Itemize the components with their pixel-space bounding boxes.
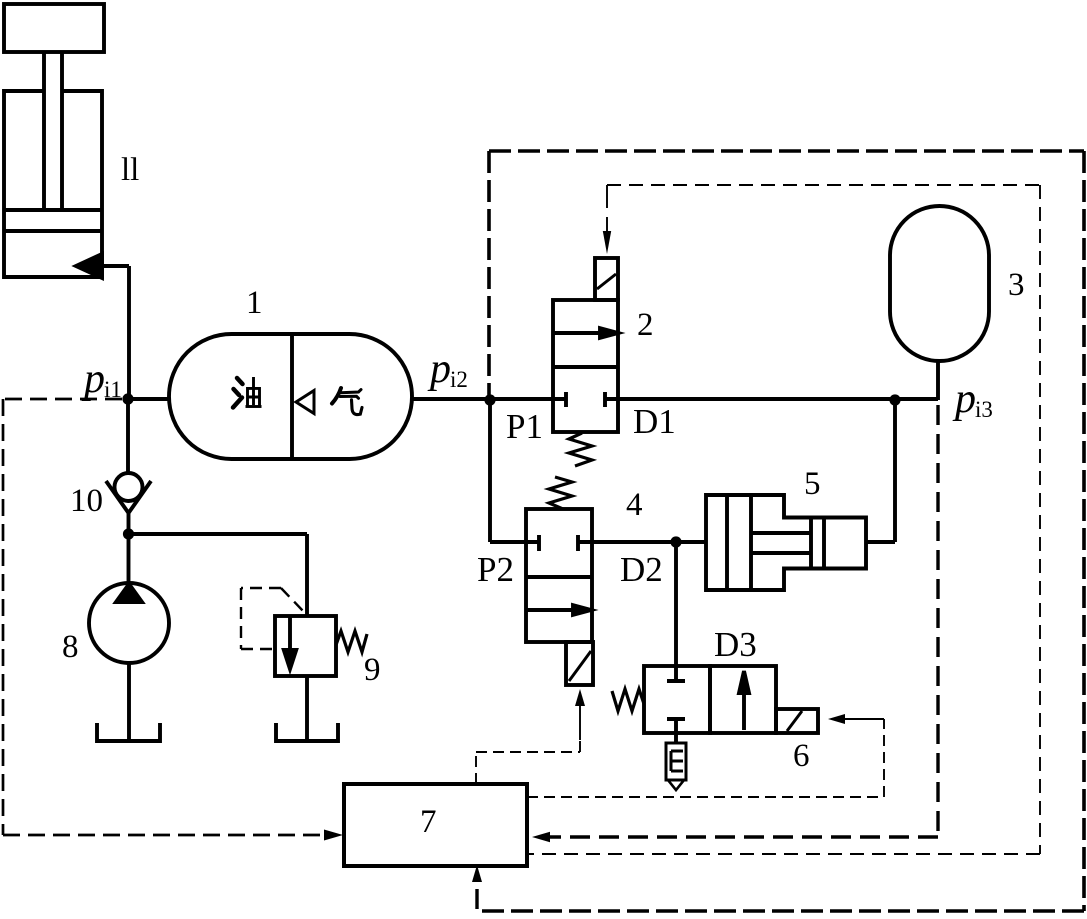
valve 4 pilot control line bbox=[476, 740, 580, 784]
piston rod of cylinder 11 bbox=[44, 52, 62, 210]
relief valve 9 internal arrow bbox=[288, 617, 292, 652]
check valve 10 bbox=[115, 473, 143, 501]
wire valve 5 to node pi3 bbox=[866, 400, 895, 542]
svg-text:9: 9 bbox=[364, 652, 381, 688]
valve 6 bottom blocked port bbox=[667, 719, 685, 743]
svg-text:2: 2 bbox=[637, 307, 654, 343]
piston of cylinder 11 bbox=[4, 210, 102, 231]
wire valve 4 D2 to valve 5 bbox=[578, 540, 706, 544]
svg-text:i2: i2 bbox=[450, 367, 468, 392]
svg-text:8: 8 bbox=[62, 629, 79, 665]
svg-text:1: 1 bbox=[246, 285, 263, 321]
node pi2 bbox=[484, 394, 495, 405]
drain triangle bbox=[668, 780, 684, 790]
valve 4 blocked ports bbox=[539, 535, 578, 551]
valve 2 solenoid box bbox=[595, 258, 618, 300]
pi1 arrow into box 7 bbox=[324, 830, 343, 841]
svg-text:p: p bbox=[81, 356, 105, 402]
wire node D2 down to valve 6 bbox=[674, 542, 678, 666]
valve 6 top blocked port bbox=[667, 666, 685, 681]
valve 4 spring bbox=[549, 477, 572, 509]
junction dots bbox=[122, 393, 900, 547]
label gas (hand drawn) bbox=[332, 388, 362, 415]
valve 6 right box bbox=[710, 666, 776, 733]
svg-text:6: 6 bbox=[793, 738, 810, 774]
svg-text:D1: D1 bbox=[633, 402, 676, 441]
relief valve 9 drain to tank bbox=[305, 676, 309, 740]
valve 2 body bbox=[553, 300, 618, 432]
accumulator 3 body bbox=[890, 206, 989, 361]
node pi3 branch bbox=[889, 394, 900, 405]
valve 4 pilot arrow bbox=[579, 705, 581, 740]
wire pi1 down to check valve 10 bbox=[126, 399, 130, 473]
svg-text:P2: P2 bbox=[477, 550, 514, 589]
valve 6 pilot control line bbox=[527, 719, 884, 797]
valve 5 internal lines bbox=[727, 495, 824, 590]
label oil (hand drawn) bbox=[233, 377, 262, 408]
box 7 bottom arrow bbox=[475, 874, 478, 878]
svg-text:5: 5 bbox=[804, 466, 821, 502]
valve 4 body bbox=[526, 509, 592, 642]
valve 6 pilot arrow bbox=[844, 718, 884, 720]
valve 4 flow arrow bbox=[527, 608, 575, 612]
valve 4 solenoid box bbox=[566, 642, 593, 685]
pi1 sensing line bbox=[3, 399, 328, 835]
drain filter under valve 6 bbox=[666, 743, 686, 780]
valve 6 spring bbox=[612, 689, 644, 711]
valve 5 body bbox=[706, 495, 866, 590]
wire pump 8 to tank bbox=[127, 663, 131, 740]
svg-text:10: 10 bbox=[70, 483, 103, 519]
outer box right edge bbox=[1082, 151, 1086, 911]
valve 2 pilot control line bbox=[527, 185, 1040, 854]
wire pi1 to accumulator 1 bbox=[128, 397, 170, 401]
port arrow into cylinder 11 bbox=[76, 254, 102, 278]
accumulator 3 stem bbox=[936, 361, 940, 400]
controller box 7 bbox=[344, 784, 527, 866]
relief valve 9 body bbox=[275, 616, 336, 676]
valve 2 flow arrow bbox=[553, 331, 602, 335]
svg-text:i3: i3 bbox=[975, 397, 993, 422]
outer box bottom edge bbox=[477, 909, 1084, 913]
pump 8 bbox=[89, 583, 169, 663]
box 7 bottom stub bbox=[475, 878, 478, 909]
svg-text:D2: D2 bbox=[620, 550, 663, 589]
svg-text:P1: P1 bbox=[506, 407, 543, 446]
svg-text:4: 4 bbox=[626, 487, 643, 523]
node below check valve 10 bbox=[123, 528, 134, 539]
relief valve 9 pilot line bbox=[241, 588, 304, 649]
accumulator 1 body bbox=[169, 334, 412, 459]
svg-text:ll: ll bbox=[121, 152, 139, 188]
svg-text:D3: D3 bbox=[714, 625, 757, 664]
node D2 bbox=[670, 536, 681, 547]
valve 2 pilot arrow bbox=[606, 185, 608, 233]
svg-text:3: 3 bbox=[1008, 267, 1025, 303]
main line valve 2 D1 port to accumulator 3 bbox=[605, 397, 938, 401]
valve 6 flow arrow bbox=[742, 691, 746, 730]
valve 4 position divider bbox=[526, 575, 592, 579]
valve 6 solenoid box bbox=[776, 709, 818, 733]
svg-text:7: 7 bbox=[420, 804, 437, 840]
accumulator 1 divider bbox=[290, 335, 294, 458]
valve 2 position divider bbox=[553, 365, 618, 369]
svg-text:p: p bbox=[427, 346, 451, 392]
tank under relief valve 9 bbox=[276, 723, 338, 741]
dash-dot outer boundary box bbox=[477, 151, 1084, 911]
load mass rectangle on cylinder 11 bbox=[4, 4, 104, 52]
node pi1 bbox=[122, 393, 133, 404]
valve 2 spring bbox=[569, 433, 592, 466]
relief valve 9 spring bbox=[336, 631, 367, 652]
accumulator 1 gas triangle bbox=[296, 391, 314, 414]
main line accumulator 1 to valve 2 P1 port bbox=[412, 397, 566, 401]
valve 5 rod lines bbox=[751, 533, 811, 553]
wire pi2 down to valve 4 P2 bbox=[490, 400, 539, 542]
svg-text:i1: i1 bbox=[104, 377, 122, 402]
cylinder 11 body bbox=[4, 91, 102, 277]
svg-text:p: p bbox=[952, 376, 976, 422]
valve 6 left box bbox=[644, 666, 710, 733]
outer box top edge bbox=[489, 149, 1084, 153]
pi3 sensing line bbox=[477, 405, 938, 909]
valve 2 blocked ports bbox=[566, 392, 605, 407]
wire branch to relief valve 9 bbox=[129, 534, 308, 616]
wire check valve 10 to pump 8 bbox=[127, 513, 131, 583]
outer box left edge bbox=[487, 151, 491, 397]
pi3 arrow into box 7 bbox=[532, 832, 550, 842]
tank under pump 8 bbox=[97, 723, 160, 741]
wire cylinder to node pi1 bbox=[102, 266, 129, 399]
